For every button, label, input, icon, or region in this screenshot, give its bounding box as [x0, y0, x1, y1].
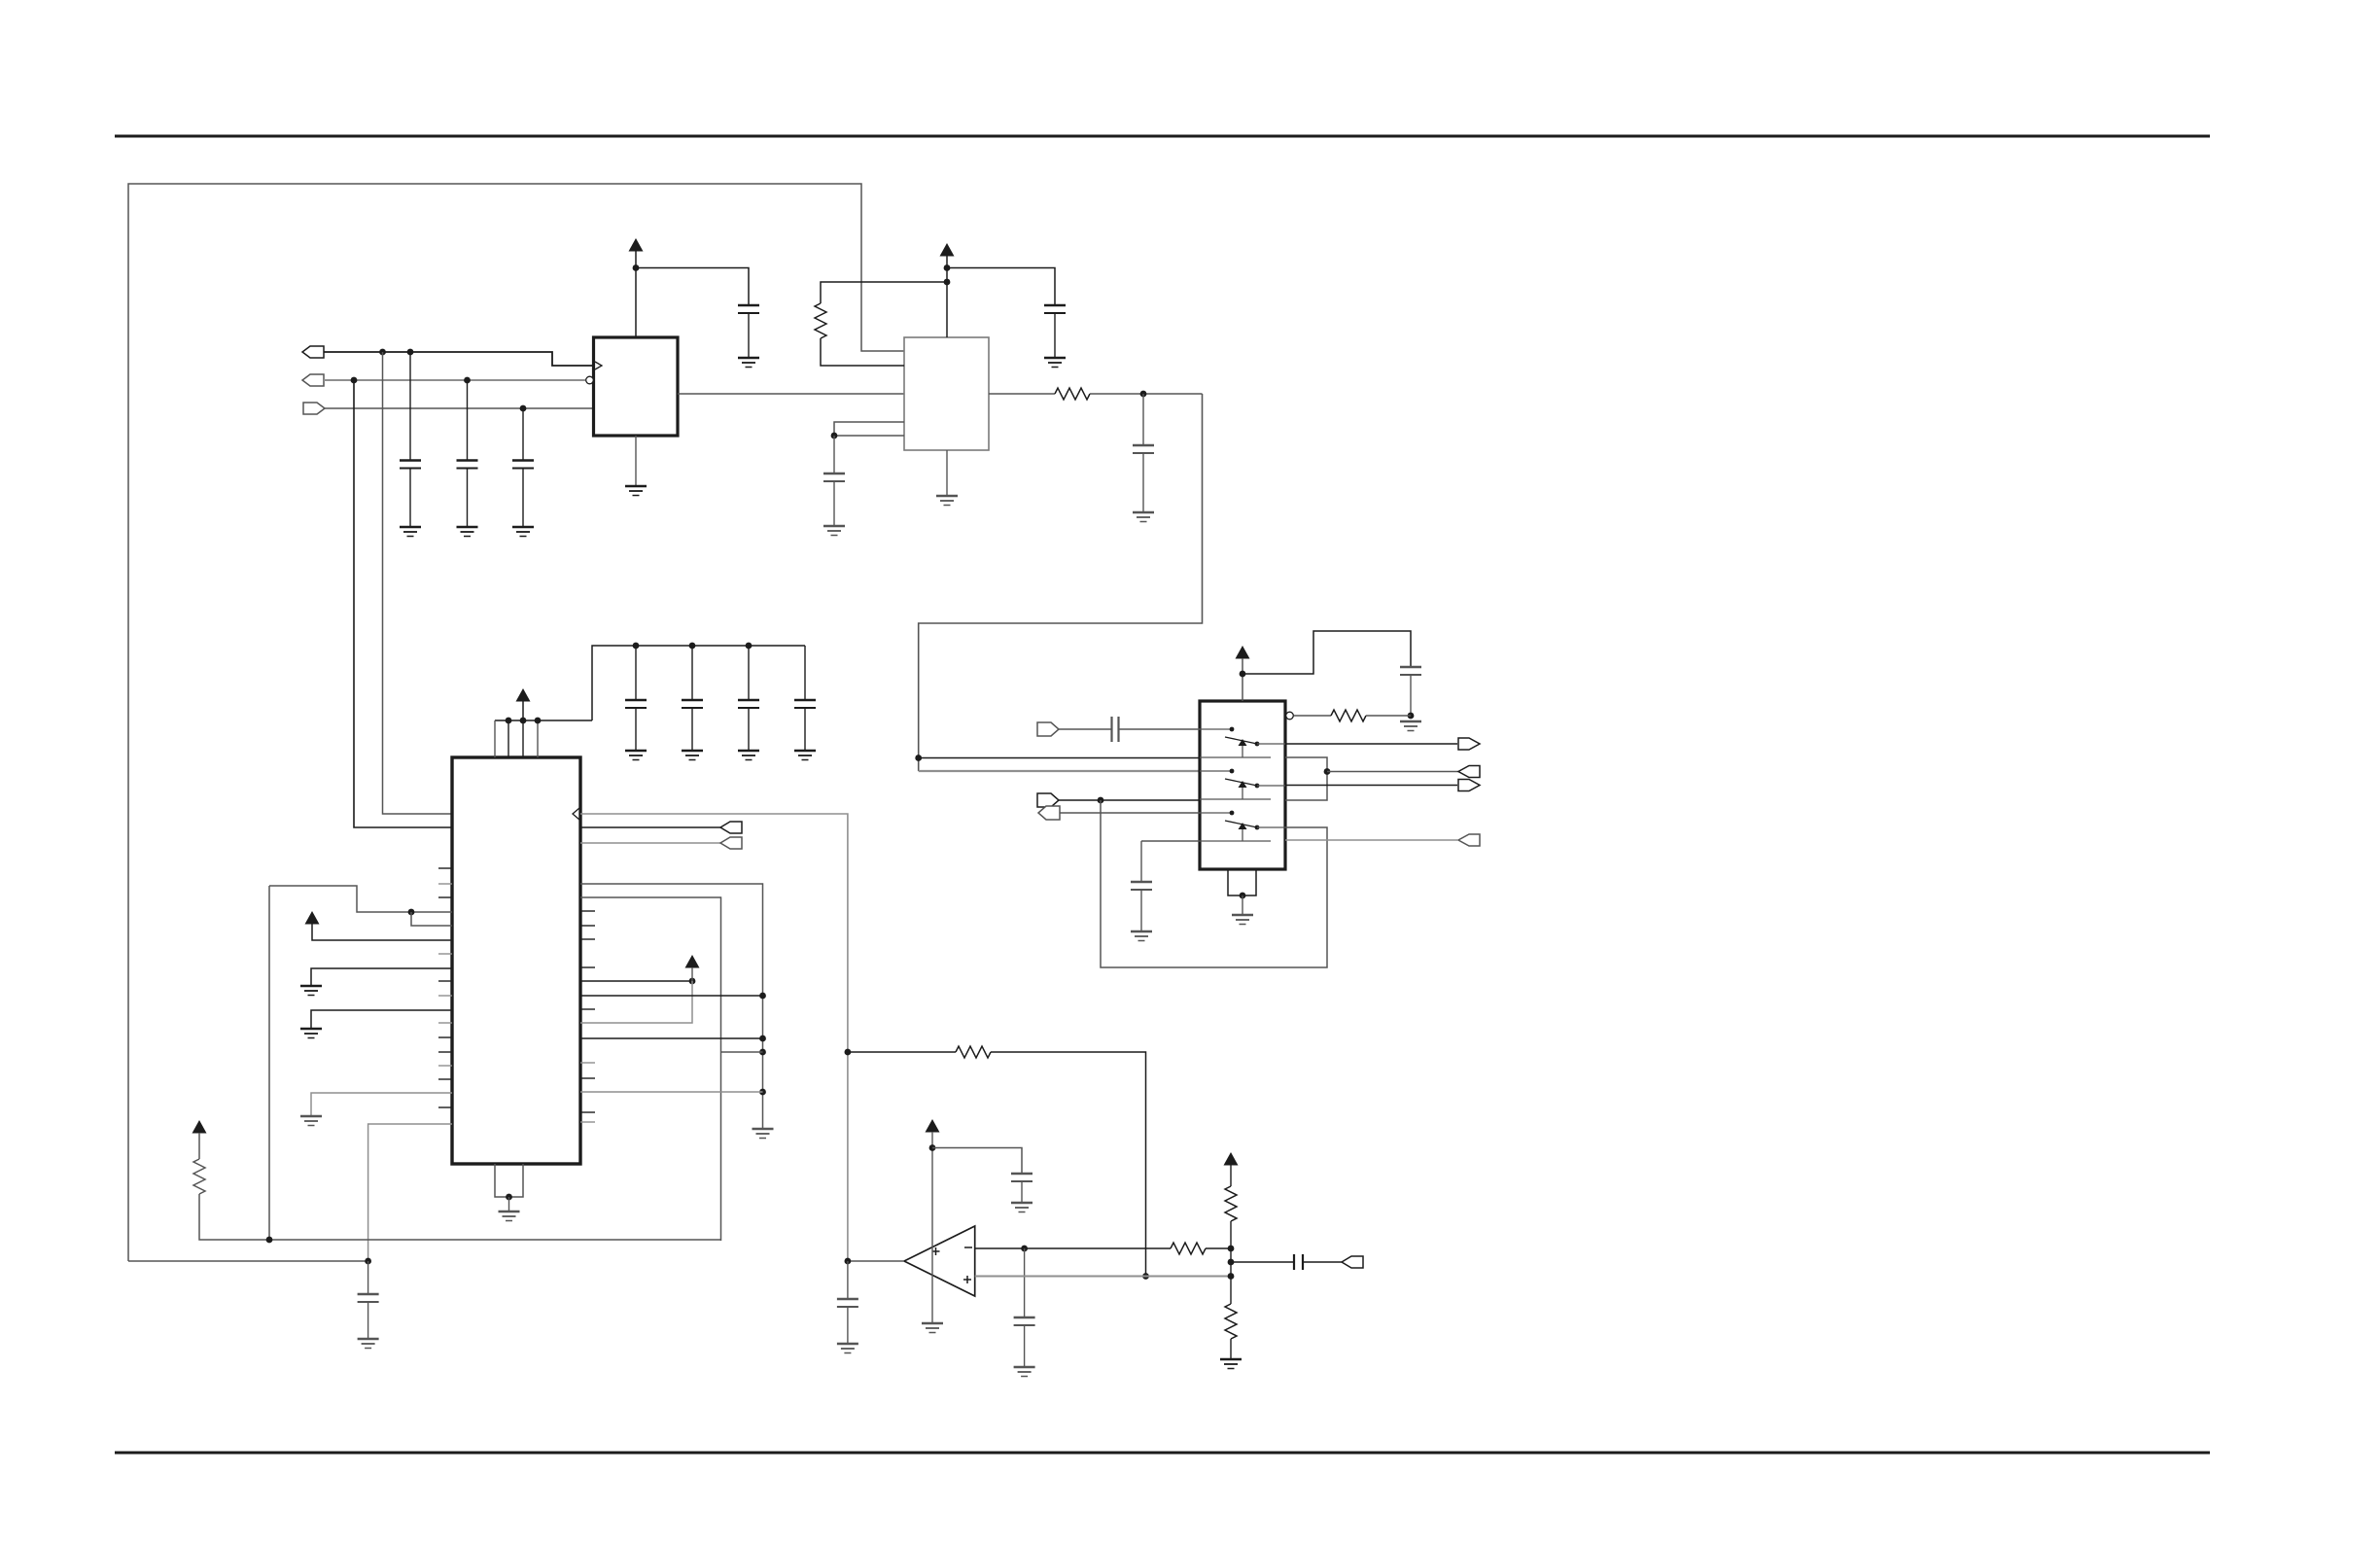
junction [759, 1049, 766, 1056]
connector J11 [720, 822, 742, 833]
pin U3 stub [438, 995, 452, 997]
ground [1133, 512, 1154, 522]
switch S2 common [1257, 785, 1285, 787]
wire route to U4 [919, 394, 1203, 771]
wire [833, 481, 835, 526]
capacitor C7 [823, 474, 845, 481]
resistor R3 [1331, 710, 1366, 721]
wire [947, 268, 1055, 306]
ground [752, 1129, 774, 1139]
wire [199, 1194, 721, 1240]
pin U1 clock wedge [595, 362, 602, 369]
wire U1 out [678, 393, 904, 395]
wire [367, 1302, 369, 1338]
pin U3 stub [580, 1008, 595, 1010]
capacitor C13 [1112, 717, 1119, 742]
wire frame net [128, 184, 904, 1261]
wire [1142, 453, 1144, 511]
wire [409, 352, 411, 461]
switch S2 arm [1225, 779, 1259, 788]
power VCC U3b [685, 955, 700, 968]
junction [944, 279, 951, 286]
junction [759, 1036, 766, 1042]
wire [368, 1124, 452, 1261]
junction [535, 718, 542, 724]
ground [922, 1323, 943, 1333]
wire [1303, 1261, 1342, 1263]
junction [1324, 768, 1331, 775]
wire [691, 967, 693, 981]
junction [520, 405, 527, 412]
wire [946, 256, 948, 337]
wire U5 minus row [975, 1247, 1171, 1249]
wire [1090, 393, 1203, 395]
wire [411, 912, 452, 926]
junction [1240, 671, 1246, 678]
switch S2 arrow [1239, 781, 1247, 788]
ground [1232, 915, 1253, 925]
switch S3 control [1242, 829, 1243, 841]
wire [522, 408, 524, 461]
wire [1242, 895, 1243, 914]
pin U3 clock wedge [573, 808, 579, 820]
wire out row [1231, 1261, 1294, 1263]
junction [1140, 391, 1147, 398]
pin U1 bubble [586, 376, 594, 384]
capacitor C11 [794, 700, 816, 708]
switch S2 throw [1200, 798, 1271, 800]
wire [580, 1037, 763, 1039]
capacitor C3 [457, 461, 478, 469]
op U3 box [452, 757, 580, 1164]
capacitor C17 [1011, 1174, 1032, 1181]
wire U5 supply [931, 1132, 933, 1322]
label U5 plus out [932, 1247, 940, 1255]
junction [1240, 893, 1246, 899]
capacitor C19 [1294, 1254, 1303, 1270]
resistor R8 [1225, 1304, 1237, 1339]
junction [633, 264, 640, 271]
ground [300, 1116, 322, 1126]
pin U3 stub [580, 938, 595, 940]
ground [1044, 358, 1066, 368]
junction [633, 643, 640, 650]
capacitor C16 [837, 1299, 858, 1307]
wire [268, 886, 270, 1239]
wire [691, 646, 693, 700]
wire [919, 757, 1200, 759]
pin U3 stub [580, 910, 595, 912]
wire [1060, 812, 1200, 814]
junction [464, 377, 471, 384]
power VCC U5 [926, 1119, 940, 1133]
junction [506, 1194, 512, 1201]
pin U3 stub [438, 883, 452, 885]
switch S2 pole [1200, 769, 1234, 774]
op U2 box [904, 337, 989, 450]
ground [300, 1029, 322, 1038]
wire [635, 646, 637, 700]
ground [837, 1344, 858, 1353]
power VCC U3 [516, 688, 531, 702]
wire U4 gnd pins [1228, 869, 1256, 895]
ground [1400, 721, 1421, 731]
pin U3 stub [438, 896, 452, 898]
junction [1228, 1259, 1235, 1266]
ground [625, 751, 647, 760]
wire U5 out [848, 1260, 904, 1262]
wire [1059, 728, 1112, 730]
switch S2 control [1242, 788, 1243, 799]
wire P1 net [269, 886, 452, 912]
wire [1327, 771, 1458, 773]
ground [457, 527, 478, 537]
resistor R7 [1225, 1186, 1237, 1221]
connector J12 [720, 837, 742, 849]
wire [1285, 839, 1457, 841]
wire [367, 1261, 369, 1294]
switch S1 throw [1200, 756, 1271, 758]
resistor R1 [815, 303, 826, 338]
wire [580, 842, 720, 844]
junction [689, 978, 696, 985]
pin U3 stub [580, 966, 595, 968]
wire U5 plus row [975, 1276, 1231, 1278]
wire U4 loop2 [1101, 800, 1327, 967]
junction [845, 1049, 852, 1056]
ground [512, 527, 534, 537]
wire [1021, 1181, 1023, 1202]
wire [580, 980, 692, 982]
wire U2 pin [834, 422, 904, 436]
top rule [115, 135, 2210, 138]
wire [1294, 715, 1332, 717]
wire [1230, 1165, 1232, 1186]
junction [915, 755, 922, 761]
junction [379, 349, 386, 356]
ground [682, 751, 703, 760]
wire [691, 708, 693, 750]
op U4 box [1200, 701, 1285, 869]
ground [794, 751, 816, 760]
ground [738, 358, 759, 368]
capacitor C1 [738, 305, 759, 313]
wire [312, 924, 452, 940]
power VCC U1 [629, 238, 644, 252]
label U5 plus in [963, 1276, 971, 1283]
ground [1131, 931, 1152, 941]
wire [635, 251, 637, 337]
capacitor C9 [682, 700, 703, 708]
power VCC divider [1224, 1152, 1239, 1166]
ground [625, 486, 647, 496]
junction [944, 264, 951, 271]
switch S3 throw [1200, 840, 1271, 842]
wire [1285, 743, 1457, 745]
switch S3 arrow [1239, 823, 1247, 829]
wire [635, 708, 637, 750]
wire [1142, 394, 1144, 445]
label U5 minus in [964, 1247, 972, 1248]
power VCC U4 [1236, 646, 1250, 659]
wire [1024, 1248, 1026, 1317]
wire [522, 469, 524, 528]
junction [759, 1089, 766, 1096]
junction [1408, 713, 1415, 720]
connector J4 [1037, 722, 1059, 736]
junction [408, 909, 415, 916]
connector J7 [1458, 766, 1480, 778]
pin U3 stub [438, 1022, 452, 1024]
wire U4 loop [1285, 757, 1327, 800]
junction [365, 1258, 371, 1265]
capacitor C4 [512, 461, 534, 469]
ground [1014, 1367, 1035, 1377]
capacitor C14 [1131, 882, 1152, 890]
wire feedback [848, 1051, 956, 1053]
wire [1059, 799, 1200, 801]
wire [1230, 1248, 1232, 1304]
wire U1 gnd pin [635, 436, 637, 485]
switch S1 arm [1225, 737, 1259, 746]
wire U2 out [989, 393, 1055, 395]
pin U3 stub [580, 1077, 595, 1079]
connector J5 [1037, 793, 1059, 807]
wire [580, 897, 721, 1241]
junction [831, 433, 838, 439]
wire [128, 1260, 368, 1262]
wire [311, 1093, 452, 1115]
wire [409, 469, 411, 528]
pin U3 top [522, 720, 524, 757]
wire [821, 338, 904, 366]
wire [932, 1148, 1022, 1175]
pin U3 stub [438, 980, 452, 982]
wire [467, 469, 469, 528]
connector J2 [302, 374, 324, 386]
ground [738, 751, 759, 760]
wire [1024, 1325, 1026, 1366]
wire [383, 352, 453, 814]
wire [311, 968, 452, 985]
junction [1142, 1273, 1149, 1280]
switch S3 common [1257, 826, 1285, 828]
junction [746, 643, 752, 650]
wire [198, 1133, 200, 1159]
wire [991, 1052, 1146, 1277]
capacitor C6 [1133, 445, 1154, 453]
wire [1410, 675, 1412, 716]
wire bypass rail [592, 646, 805, 720]
wire [467, 380, 469, 461]
wire U2 gnd pin [946, 450, 948, 495]
wire [1119, 728, 1201, 730]
wire [508, 1197, 510, 1211]
junction [520, 718, 527, 724]
wire [354, 380, 452, 827]
pin U3 stub [580, 1062, 595, 1064]
power VCC U3c [305, 911, 320, 925]
wire [748, 646, 750, 700]
resistor R6 [1171, 1243, 1206, 1254]
wire [311, 1010, 452, 1028]
resistor R4 [193, 1159, 205, 1194]
wire [1366, 715, 1411, 717]
junction [1228, 1246, 1235, 1252]
pin U3 stub [438, 953, 452, 955]
pin U3 stub [438, 1051, 452, 1053]
wire [1242, 631, 1411, 674]
connector J10 [1458, 834, 1480, 846]
wire [804, 708, 806, 750]
wire [1230, 1221, 1232, 1248]
wire [821, 282, 947, 303]
ground [1220, 1359, 1242, 1369]
pin U3 stub [438, 1078, 452, 1080]
pin U4 bubble [1286, 712, 1294, 720]
wire [580, 826, 720, 828]
wire [1285, 785, 1457, 787]
switch S3 pole [1200, 811, 1234, 816]
pin U3 top [494, 720, 496, 757]
junction [1098, 797, 1104, 804]
capacitor C12 [1400, 667, 1421, 675]
wire [580, 995, 763, 997]
resistor R2 [1055, 388, 1090, 400]
switch S1 control [1242, 746, 1243, 757]
switch S1 arrow [1239, 739, 1247, 746]
wire [580, 981, 692, 1023]
wire [1206, 1247, 1231, 1249]
connector J3 [303, 403, 325, 414]
wire jumper [721, 1051, 763, 1053]
wire [1141, 840, 1200, 842]
wire clock net [580, 814, 848, 1261]
junction [1228, 1273, 1235, 1280]
ground [936, 496, 958, 506]
wire [580, 1091, 763, 1093]
wire [636, 268, 749, 306]
connector J13 [1342, 1256, 1363, 1268]
pin U3 stub [438, 1036, 452, 1038]
wire U3 vcc rail [495, 720, 592, 721]
wire J3 bus [325, 407, 594, 409]
pin U3 stub [580, 1111, 595, 1113]
capacitor C10 [738, 700, 759, 708]
resistor R5 [956, 1046, 991, 1058]
ground [1011, 1203, 1032, 1212]
switch S3 arm [1225, 821, 1259, 829]
power VCC R4 [192, 1120, 207, 1134]
wire [833, 436, 835, 474]
capacitor C8 [625, 700, 647, 708]
connector J9 [1458, 780, 1480, 791]
wire [1054, 313, 1056, 357]
connector J8 [1458, 738, 1480, 750]
wire J2 bus [324, 379, 585, 381]
ground [400, 527, 421, 537]
wire [847, 1307, 849, 1343]
capacitor C5 [1044, 305, 1066, 313]
capacitor C15 [358, 1294, 379, 1302]
wire [804, 646, 806, 700]
pin U3 top [507, 720, 509, 757]
bottom rule [115, 1452, 2210, 1455]
capacitor C2 [400, 461, 421, 469]
junction [759, 993, 766, 1000]
connector J1 [302, 346, 324, 358]
ground [499, 1211, 520, 1221]
wire [1140, 841, 1142, 882]
junction [407, 349, 414, 356]
junction [689, 643, 696, 650]
pin U3 stub [438, 1065, 452, 1067]
wire J1 bus [324, 352, 594, 366]
ground [823, 526, 845, 536]
wire [748, 708, 750, 750]
pin U3 stub [580, 1121, 595, 1123]
wire [1230, 1339, 1232, 1358]
ground [358, 1339, 379, 1349]
junction [845, 1258, 852, 1265]
capacitor C18 [1014, 1317, 1035, 1325]
pin U3 stub [580, 925, 595, 927]
switch S1 pole [1200, 727, 1234, 732]
junction [266, 1237, 273, 1244]
wire [748, 313, 750, 357]
junction [929, 1144, 936, 1151]
switch S1 common [1257, 743, 1285, 745]
junction [1021, 1246, 1028, 1252]
connector J6 [1038, 806, 1060, 820]
wire [522, 701, 524, 720]
wire [919, 770, 1200, 772]
junction [506, 718, 512, 724]
wire [1140, 890, 1142, 931]
op U5 opamp [904, 1226, 975, 1296]
wire gnd bus [580, 884, 763, 1128]
wire [1242, 658, 1243, 701]
pin U3 stub [438, 867, 452, 869]
pin U3 top [537, 720, 539, 757]
wire U3 gnd pins [495, 1164, 523, 1197]
ground [300, 986, 322, 996]
wire [847, 1261, 849, 1299]
junction [351, 377, 358, 384]
pin U3 stub [438, 1106, 452, 1108]
op U1 box [594, 337, 679, 436]
power VCC U2 [940, 243, 955, 257]
